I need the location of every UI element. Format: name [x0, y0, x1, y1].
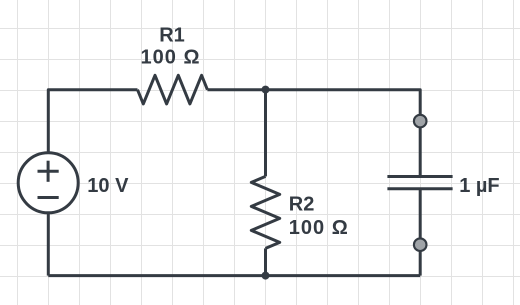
- wire left rail below source: [47, 213, 50, 276]
- resistor R2: [251, 176, 279, 248]
- wire: R2 to bottom node: [264, 248, 267, 275]
- svg-text:1 µF: 1 µF: [459, 175, 499, 197]
- wire top-left: from left rail corner to R1: [48, 90, 137, 153]
- wire top-right: node A to right rail corner: [266, 90, 421, 177]
- svg-text:10 V: 10 V: [87, 175, 129, 197]
- voltage source V1 circle: [18, 153, 78, 213]
- wire right rail below capacitor: [419, 189, 422, 276]
- wire bottom rail: [48, 274, 420, 277]
- port terminal bottom of capacitor: [414, 238, 427, 251]
- wire: node A down to R2: [264, 90, 267, 177]
- voltage source minus sign: [38, 196, 59, 199]
- svg-text:R1: R1: [159, 24, 185, 46]
- svg-text:100 Ω: 100 Ω: [289, 217, 349, 239]
- wire top-middle: R1 to node A: [207, 88, 265, 91]
- capacitor C1 top plate: [387, 175, 452, 178]
- capacitor C1 bottom plate: [387, 187, 452, 190]
- port terminal top of capacitor: [414, 115, 427, 128]
- bottom junction dot: [262, 272, 270, 280]
- svg-text:100 Ω: 100 Ω: [141, 47, 201, 69]
- voltage source plus sign: [38, 161, 59, 182]
- label R1 value: [87, 24, 499, 239]
- node A junction dot: [262, 86, 270, 94]
- svg-text:R2: R2: [289, 194, 315, 216]
- resistor R1: [138, 75, 208, 104]
